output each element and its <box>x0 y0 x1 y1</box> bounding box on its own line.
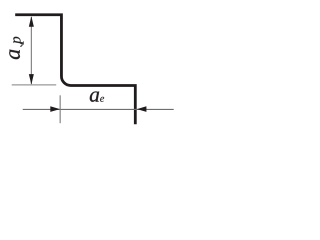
ae right-pointing arrowhead <box>50 106 60 112</box>
label ae: glyph a <box>90 91 99 101</box>
ae dimension line <box>23 108 174 110</box>
ap up arrowhead <box>29 16 34 27</box>
label ap: p descender tail curl <box>20 43 22 46</box>
label ap (rotated): glyph a <box>9 50 20 60</box>
ae extension line <box>59 95 61 123</box>
bottom surface extension line <box>12 84 57 86</box>
ap dimension line <box>30 17 32 84</box>
label ap (rotated): subscript p <box>13 37 23 45</box>
workpiece step profile <box>15 15 135 125</box>
ae left-pointing arrowhead <box>137 106 146 112</box>
label ae: subscript e <box>100 97 104 102</box>
ap down arrowhead <box>29 74 34 85</box>
